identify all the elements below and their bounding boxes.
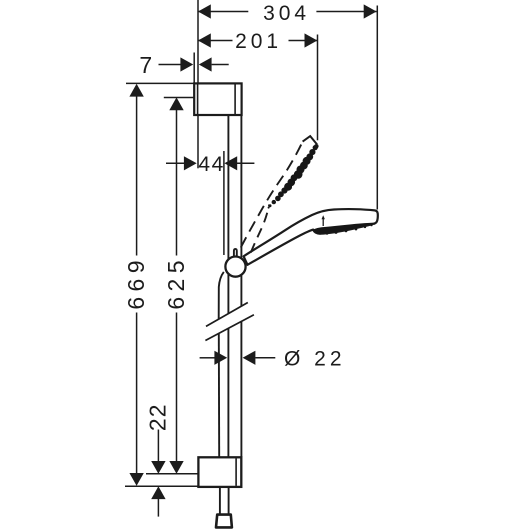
- hand shower solid silhouette (handle + head): [244, 209, 378, 265]
- dimension 44 (arrows outside): [166, 162, 184, 164]
- svg-text:669: 669: [123, 255, 149, 310]
- svg-text:7: 7: [139, 52, 152, 78]
- rail left edge (lower part): [227, 328, 229, 457]
- svg-text:Ø 22: Ø 22: [284, 347, 346, 370]
- rail right edge (upper part): [240, 115, 242, 306]
- pipe break diagonal upper: [206, 303, 248, 327]
- slider holder nub: [234, 249, 237, 258]
- pipe break diagonal lower: [205, 315, 254, 341]
- wall reference extension line (below bracket, for 44): [197, 116, 199, 169]
- spray face dark band (pivoted head, edge view): [268, 144, 319, 209]
- wall reference extension line (top): [197, 0, 199, 83]
- top reference line (625 datum): [164, 97, 194, 99]
- dimension 7 (arrows outside): [159, 64, 181, 66]
- top wall bracket: [194, 83, 241, 115]
- spray nozzle bumps (solid head): [317, 223, 375, 235]
- dashed hand shower outline right edge (pivoted position): [251, 205, 269, 253]
- top reference line at bracket top (669 datum): [126, 82, 194, 84]
- extension line 201 right (to tilted spray head): [317, 35, 319, 141]
- dimension Ø22: [200, 357, 215, 359]
- bracket front extension line (for 7): [193, 53, 195, 84]
- rail right edge (lower part): [240, 322, 242, 458]
- pivoted head end cap: [303, 136, 318, 144]
- hose below bottom bracket right edge: [228, 487, 230, 514]
- svg-text:304: 304: [263, 2, 310, 25]
- bottom reference line (669 + 22 datum): [125, 485, 199, 487]
- svg-text:22: 22: [145, 404, 171, 432]
- svg-text:625: 625: [163, 255, 189, 310]
- shower hose left edge (below break to bottom bracket): [218, 334, 220, 458]
- bottom bracket clamp inner line: [235, 458, 237, 486]
- hose end connector nut: [216, 515, 232, 528]
- dimension 22 (vertical, arrows outside): [157, 430, 159, 462]
- top bracket clamp inner line: [234, 85, 236, 115]
- select button arrow on head: [322, 219, 324, 227]
- bottom wall bracket: [198, 457, 241, 487]
- dimension line 625 (vertical): [176, 110, 178, 256]
- extension line 304 right (to hand shower tip): [376, 6, 378, 210]
- svg-text:201: 201: [235, 30, 282, 53]
- dimension line 669 (vertical): [136, 96, 138, 256]
- bottom reference line (rail end / 625 + 22 datum): [146, 473, 199, 475]
- top bracket wall plate inner line: [197, 85, 199, 115]
- dimension line 201: [198, 40, 233, 42]
- svg-text:44: 44: [198, 153, 224, 176]
- shower hose left edge (curve from slider, to pipe break): [219, 272, 224, 319]
- dimension line 304: [198, 11, 248, 13]
- rail left edge (upper part, to pipe break): [227, 115, 229, 314]
- hose below bottom bracket left edge: [219, 487, 221, 514]
- spray face dark band (solid head): [313, 223, 375, 234]
- dashed hand shower outline left edge (pivoted position): [241, 142, 303, 248]
- slider holder circle: [225, 257, 245, 277]
- extension line 44 right: [223, 151, 225, 255]
